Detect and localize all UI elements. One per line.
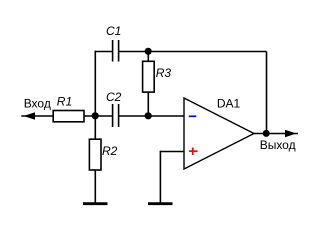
wire R2 bottom [94,170,96,203]
resistor R2 [89,139,101,170]
resistor R1 [53,111,84,122]
svg-text:R1: R1 [57,95,72,109]
svg-text:C2: C2 [106,90,122,104]
wire C2 to op-amp inverting input [119,115,184,117]
wire top branch left [95,51,113,53]
wire R1 to node A [84,115,113,117]
output arrow [285,130,296,137]
wire non-inverting input [160,151,184,153]
svg-text:C1: C1 [106,24,121,38]
wire R3 bottom [147,92,149,116]
svg-text:R2: R2 [102,144,118,158]
non-inverting input mark [189,150,198,152]
svg-text:R3: R3 [156,66,172,80]
wire node A up to C1 branch [94,51,96,116]
junction node B (C2/R3/op-amp) [145,112,152,119]
wire R2 top [94,116,96,140]
input arrow [24,112,35,119]
wire R3 top [147,52,149,62]
svg-text:DA1: DA1 [217,97,241,111]
junction node A (R1/C2/C1/R2) [92,112,99,119]
inverting input mark [189,115,197,117]
svg-text:Вход: Вход [24,97,51,111]
wire C1 to feedback corner [119,51,267,53]
wire down to ground [159,151,161,203]
wire feedback down to output node [266,52,268,134]
wire input stub [21,115,53,117]
junction node C (C1/R3/feedback) [145,48,152,55]
wire output [254,133,298,135]
op-amp DA1 [184,98,254,169]
capacitor C1 [112,40,114,62]
resistor R3 [143,61,155,92]
capacitor C2 [112,104,114,127]
svg-text:Выход: Выход [260,138,296,152]
ground (R2) [83,202,108,205]
junction output node [263,130,270,137]
ground (non-inverting input) [148,202,173,205]
